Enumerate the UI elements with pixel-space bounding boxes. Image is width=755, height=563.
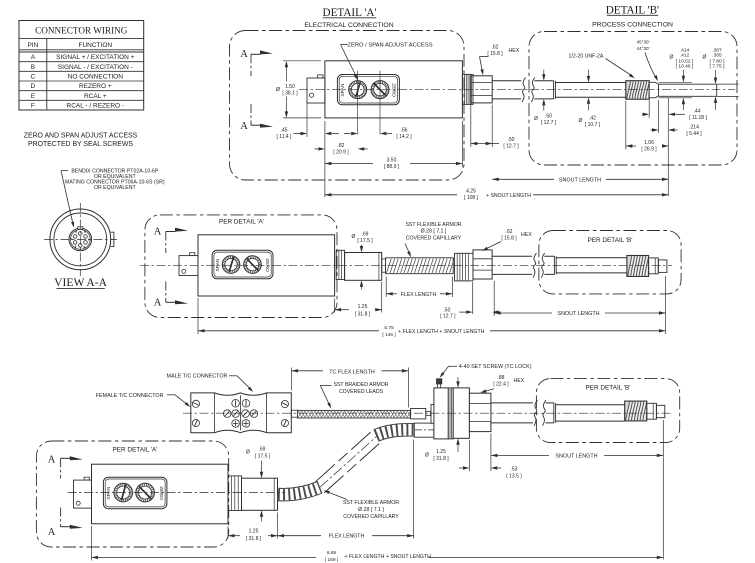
svg-text:5.75: 5.75 <box>384 325 394 331</box>
svg-text:A: A <box>31 54 36 61</box>
svg-text:A: A <box>240 49 248 60</box>
rings at body exit (middle row) <box>336 250 344 279</box>
dimension dia .69 (bottom row) <box>246 446 271 521</box>
svg-text:.88: .88 <box>498 375 505 381</box>
svg-text:Ø: Ø <box>670 55 674 61</box>
per detail B label (bottom row) <box>585 384 630 391</box>
svg-text:.82: .82 <box>338 143 345 149</box>
4-40 set screw <box>437 379 442 388</box>
set screw assembly: main cylinder <box>434 388 448 439</box>
per detail A box (middle row) <box>145 215 337 318</box>
connector stub (middle row) <box>179 253 198 276</box>
detail B title <box>606 4 659 16</box>
view A-A label <box>54 276 108 289</box>
detail A title <box>323 7 377 19</box>
svg-text:A: A <box>154 298 162 309</box>
dimension snout length (bottom row) <box>491 420 663 560</box>
dimension .50 (middle row) <box>440 282 498 320</box>
capillary coupling cylinder (middle row) <box>345 253 382 281</box>
leader from bendix note to connector pins <box>61 171 74 228</box>
svg-text:[ 88.9 ]: [ 88.9 ] <box>384 164 400 170</box>
dimension 45-30 / 44-30 angle (detail B) <box>637 40 658 82</box>
svg-text:ZERO AND SPAN ADJUST ACCESS: ZERO AND SPAN ADJUST ACCESS <box>24 133 138 140</box>
svg-text:[ 38.1 ]: [ 38.1 ] <box>282 90 298 96</box>
svg-text:.44: .44 <box>694 108 701 114</box>
extension line body-right (detail A) <box>461 121 463 167</box>
svg-text:.56: .56 <box>401 128 408 134</box>
svg-text:[ 31.8 ]: [ 31.8 ] <box>355 312 371 318</box>
svg-text:SPAN: SPAN <box>215 258 221 271</box>
svg-text:[ 31.8 ]: [ 31.8 ] <box>246 536 262 542</box>
svg-text:ZERO: ZERO <box>158 486 164 500</box>
svg-text:SIGNAL + / EXCITATION +: SIGNAL + / EXCITATION + <box>56 54 134 61</box>
svg-text:[ 169 ]: [ 169 ] <box>325 557 338 563</box>
transducer body (detail A) <box>325 61 463 118</box>
dimension ext lines .414/.307 (detail B) <box>659 82 739 98</box>
svg-text:Ø: Ø <box>579 118 583 124</box>
detail B subtitle <box>592 22 673 29</box>
svg-text:D: D <box>31 83 36 90</box>
svg-text:.50: .50 <box>508 137 515 143</box>
svg-text:4-40 SET SCREW (TC LOCK): 4-40 SET SCREW (TC LOCK) <box>459 364 532 370</box>
per detail B box (bottom row) <box>536 379 679 443</box>
svg-text:E: E <box>31 93 36 100</box>
centerline (bottom row shaft) <box>183 412 672 414</box>
svg-text:[ 108 ]: [ 108 ] <box>464 195 479 201</box>
section mark A-A top (detail A) <box>240 49 273 76</box>
leader: female t/c connector <box>96 393 191 407</box>
svg-text:4.25: 4.25 <box>466 189 476 195</box>
svg-text:[ 10.46 ]: [ 10.46 ] <box>676 64 694 70</box>
svg-text:SST FLEXIBLE ARMOR: SST FLEXIBLE ARMOR <box>405 222 461 228</box>
tip (middle row) <box>658 260 667 273</box>
coupling rings (middle row) <box>455 253 474 281</box>
per detail A label (bottom row) <box>112 447 157 454</box>
dimension 4.25 + snout length <box>325 189 669 202</box>
svg-text:+ FLEX LENGTH + SNOUT LENGTH: + FLEX LENGTH + SNOUT LENGTH <box>398 329 485 335</box>
sst braided armor tube <box>298 410 411 418</box>
threaded snout (detail B) <box>626 81 651 100</box>
set screw assembly: hex <box>469 393 491 431</box>
span/zero adjust plate (detail A) <box>337 75 399 105</box>
svg-text:.414: .414 <box>680 47 690 53</box>
dimension snout length (middle row) <box>494 276 665 334</box>
svg-text:MALE T/C CONNECTOR: MALE T/C CONNECTOR <box>167 374 228 380</box>
collar (middle row) <box>649 258 659 274</box>
svg-text:VIEW A-A: VIEW A-A <box>54 276 108 289</box>
dimension dia .69 (middle row) <box>352 232 374 290</box>
svg-text:[ 26.9 ]: [ 26.9 ] <box>641 147 657 153</box>
svg-text:ZERO / SPAN ADJUST ACCESS: ZERO / SPAN ADJUST ACCESS <box>347 42 432 48</box>
svg-text:+ FLEX LENGTH + SNOUT LENGTH: + FLEX LENGTH + SNOUT LENGTH <box>345 554 432 560</box>
svg-text:SST FLEXIBLE ARMOR: SST FLEXIBLE ARMOR <box>343 500 399 506</box>
svg-text:1.25: 1.25 <box>358 304 368 310</box>
braided armor fitting at block <box>291 410 297 417</box>
section mark A top (middle row) <box>154 226 188 253</box>
svg-text:F: F <box>31 103 35 110</box>
svg-text:1.06: 1.06 <box>644 140 654 146</box>
set screw assembly: second cylinder <box>453 388 469 438</box>
dimension .45 (detail A) <box>277 103 339 140</box>
threaded snout (middle row) <box>627 256 650 277</box>
section mark A-A bottom (detail A) <box>240 104 273 132</box>
svg-text:[ 17.5 ]: [ 17.5 ] <box>357 238 373 244</box>
dimension .62 hex (top row) <box>480 45 520 76</box>
svg-text:PROTECTED BY SEAL SCREWS: PROTECTED BY SEAL SCREWS <box>28 141 133 148</box>
collar (bottom row) <box>647 403 657 419</box>
section mark A bottom (bottom row) <box>48 508 83 538</box>
braid ferrule <box>411 409 431 419</box>
collar .414 section (detail B) <box>649 82 658 98</box>
svg-text:FLEX LENGTH: FLEX LENGTH <box>401 292 437 298</box>
dimension 3.50 (detail A) <box>325 158 463 171</box>
svg-text:HEX: HEX <box>514 378 525 384</box>
svg-text:SNOUT LENGTH: SNOUT LENGTH <box>557 311 599 317</box>
dimension 1.06 (detail B) <box>626 101 669 153</box>
hex nut (middle row) <box>473 250 492 279</box>
svg-text:PER DETAIL 'A': PER DETAIL 'A' <box>112 447 157 454</box>
section mark A top (bottom row) <box>48 455 83 479</box>
svg-text:Ø.28 [ 7.1 ]: Ø.28 [ 7.1 ] <box>358 507 384 513</box>
svg-text:.69: .69 <box>362 232 369 238</box>
svg-text:[ 12.7 ]: [ 12.7 ] <box>541 120 557 126</box>
svg-text:[ 12.7 ]: [ 12.7 ] <box>440 314 456 320</box>
pipe break (top row) <box>521 77 535 104</box>
pipe break (bottom row) <box>533 399 546 427</box>
svg-text:SST BRAIDED ARMOR: SST BRAIDED ARMOR <box>334 382 389 388</box>
tip (bottom row) <box>656 405 664 417</box>
svg-text:SIGNAL - / EXCITATION -: SIGNAL - / EXCITATION - <box>58 64 133 71</box>
svg-text:FLEX LENGTH: FLEX LENGTH <box>329 534 365 540</box>
svg-text:COVERED LEADS: COVERED LEADS <box>339 389 384 395</box>
svg-text:RCAL +: RCAL + <box>84 93 107 100</box>
centerline (middle row) <box>140 264 672 266</box>
capillary coupling cylinder (bottom row) <box>242 478 278 510</box>
snout shaft .50 section (middle row) <box>492 256 554 274</box>
dimension .56 (detail A) <box>344 128 412 141</box>
svg-text:DETAIL 'A': DETAIL 'A' <box>323 7 377 19</box>
svg-text:[ 10.52 ]: [ 10.52 ] <box>676 59 694 65</box>
svg-text:PER DETAIL 'B': PER DETAIL 'B' <box>587 237 632 244</box>
svg-text:.69: .69 <box>259 446 266 452</box>
svg-text:.62: .62 <box>506 229 513 235</box>
svg-text:A: A <box>240 121 248 132</box>
svg-text:DETAIL 'B': DETAIL 'B' <box>606 4 659 16</box>
span/zero plate (middle row) <box>212 250 273 278</box>
dimension .88 hex <box>480 375 524 393</box>
section mark A bottom (middle row) <box>154 282 188 309</box>
dimension flex length (middle row) <box>386 277 452 299</box>
dimension 1.25 (bottom row) <box>228 513 278 542</box>
note: zero and span adjust access <box>24 133 138 149</box>
svg-text:( 13.5 ): ( 13.5 ) <box>506 474 522 480</box>
svg-text:1.25: 1.25 <box>249 529 259 535</box>
svg-text:Ø: Ø <box>246 450 250 456</box>
note: sst flexible armor (bottom row) <box>324 490 400 520</box>
svg-text:.53: .53 <box>511 467 518 473</box>
transducer body (bottom row) <box>92 464 229 524</box>
svg-text:[ 11.18 ]: [ 11.18 ] <box>689 115 707 121</box>
dimension dia 1.25 (assembly) <box>425 377 460 462</box>
flexible armor (middle row) <box>386 258 455 274</box>
svg-text:3.50: 3.50 <box>387 158 397 164</box>
dimension dia .42 (detail B) <box>579 70 601 128</box>
svg-text:1/2-20 UNF-2A: 1/2-20 UNF-2A <box>569 53 604 59</box>
svg-text:1.50: 1.50 <box>285 84 295 90</box>
centerline (bottom row body) <box>68 492 286 494</box>
svg-text:44°30': 44°30' <box>637 46 650 51</box>
armor end fitting (middle row) <box>382 259 386 272</box>
note: sst flexible armor (middle row) <box>405 222 462 257</box>
svg-text:[ 12.7 ]: [ 12.7 ] <box>503 144 519 150</box>
note: bendix connector <box>65 168 165 190</box>
dimension 1.25 (middle row) <box>335 282 382 318</box>
svg-text:CONNECTOR WIRING: CONNECTOR WIRING <box>35 26 128 36</box>
svg-text:.62: .62 <box>492 45 499 51</box>
svg-text:PIN: PIN <box>27 42 38 49</box>
svg-text:REZERO +: REZERO + <box>79 83 112 90</box>
dimension 1.50 dia (detail A) <box>276 61 321 118</box>
svg-text:[ 22.4 ]: [ 22.4 ] <box>493 381 509 387</box>
svg-text:+ SNOUT LENGTH: + SNOUT LENGTH <box>486 193 531 199</box>
leader: 4-40 set screw (tc lock) <box>440 364 532 378</box>
svg-text:A: A <box>154 226 162 237</box>
svg-text:B: B <box>31 64 35 71</box>
svg-text:OR EQUIVALENT: OR EQUIVALENT <box>94 185 137 191</box>
svg-text:PROCESS CONNECTION: PROCESS CONNECTION <box>592 22 673 29</box>
svg-text:RCAL - / REZERO -: RCAL - / REZERO - <box>67 103 125 110</box>
view A-A centerlines <box>44 203 117 276</box>
svg-text:[ 15.8 ]: [ 15.8 ] <box>487 51 503 57</box>
armor straight diagonal tube (bottom row) <box>316 429 383 493</box>
snout shaft .50 section (bottom row) <box>491 403 554 423</box>
dimension tc flex length <box>292 368 409 408</box>
svg-text:[ 17.5 ]: [ 17.5 ] <box>255 453 271 459</box>
dimension .414/.412 (detail B) <box>670 47 694 110</box>
dimension 5.75 + flex + snout (middle row) <box>198 298 666 338</box>
detail A subtitle <box>304 22 393 29</box>
svg-text:1.25: 1.25 <box>436 449 446 455</box>
svg-text:FEMALE T/C CONNECTOR: FEMALE T/C CONNECTOR <box>96 393 164 399</box>
set screw assembly: rings <box>448 388 453 439</box>
svg-text:.45: .45 <box>281 128 288 134</box>
svg-text:C: C <box>31 74 36 81</box>
svg-text:6.65: 6.65 <box>327 550 337 556</box>
connector stub (bottom row) <box>74 477 92 508</box>
dimension .53 <box>459 434 522 480</box>
shaft step (middle row) <box>554 256 556 274</box>
flexible armor spiral section 1 (bottom row) <box>278 487 320 494</box>
svg-text:B: B <box>75 230 77 234</box>
svg-text:PER DETAIL 'A': PER DETAIL 'A' <box>219 219 264 226</box>
svg-text:[ 5.44 ]: [ 5.44 ] <box>686 131 702 137</box>
svg-text:PER DETAIL 'B': PER DETAIL 'B' <box>585 384 630 391</box>
dimension .44 (detail B) <box>642 98 707 196</box>
svg-text:ELECTRICAL CONNECTION: ELECTRICAL CONNECTION <box>304 22 393 29</box>
svg-text:TC FLEX LENGTH: TC FLEX LENGTH <box>329 369 375 375</box>
note: sst braided armor covered leads <box>320 382 388 409</box>
shaft step (bottom row) <box>554 403 556 423</box>
svg-text:.412: .412 <box>680 53 690 59</box>
per detail B label (middle row) <box>587 237 632 244</box>
svg-text:HEX: HEX <box>521 232 532 238</box>
snout shaft .42 section (middle row) <box>556 258 627 273</box>
dimension .50 hex width (top row) <box>471 105 519 150</box>
snout shaft .50 section (top row) <box>492 81 553 99</box>
hex nut (detail A right) <box>471 76 492 103</box>
centerline (top row) <box>299 89 735 91</box>
svg-text:SNOUT LENGTH: SNOUT LENGTH <box>555 454 597 460</box>
svg-text:.42: .42 <box>589 115 596 121</box>
flange rings (detail A right) <box>462 74 473 104</box>
svg-text:[ 7.75 ]: [ 7.75 ] <box>710 64 726 70</box>
svg-text:.50: .50 <box>443 307 450 313</box>
svg-text:Ø: Ø <box>534 116 538 122</box>
shaft step (top row) <box>554 81 556 99</box>
dimension flex length (bottom row) <box>278 440 414 540</box>
threaded snout (bottom row) <box>625 401 648 421</box>
snout shaft .42 section (top row) <box>555 83 625 98</box>
svg-text:Ø.28 [ 7.1 ]: Ø.28 [ 7.1 ] <box>421 229 447 235</box>
svg-text:COVERED CAPILLARY: COVERED CAPILLARY <box>343 514 399 520</box>
per detail B box (middle row) <box>539 231 681 294</box>
svg-text:[ 14.2 ]: [ 14.2 ] <box>396 134 412 140</box>
svg-text:Ø: Ø <box>352 234 356 240</box>
dimension 6.65 + flex + snout <box>92 526 664 563</box>
svg-text:Ø: Ø <box>425 453 429 459</box>
svg-text:45°30': 45°30' <box>637 40 650 45</box>
span/zero plate (bottom row) <box>103 477 166 509</box>
snout shaft thin section (bottom row) <box>556 405 625 421</box>
per detail A label (middle row) <box>219 219 264 226</box>
svg-text:COVERED CAPILLARY: COVERED CAPILLARY <box>406 236 462 242</box>
thread callout 1/2-20 UNF-2A <box>569 53 635 78</box>
detail B boundary box <box>529 32 737 166</box>
view A-A connector face <box>50 209 114 270</box>
set screw assembly: left plate <box>431 405 434 424</box>
svg-text:[ 7.80 ]: [ 7.80 ] <box>710 59 726 65</box>
svg-text:A: A <box>48 527 56 538</box>
dimension snout length (top row) <box>492 178 668 184</box>
svg-text:.50: .50 <box>545 113 552 119</box>
tc connector block <box>191 393 291 433</box>
svg-text:FUNCTION: FUNCTION <box>79 42 113 49</box>
screw center extension lines (detail A) <box>358 71 380 135</box>
svg-text:[ 20.9 ]: [ 20.9 ] <box>333 149 349 155</box>
svg-text:NO CONNECTION: NO CONNECTION <box>68 74 124 81</box>
svg-text:[ 10.7 ]: [ 10.7 ] <box>585 122 601 128</box>
leader: zero/span adjust access <box>341 42 433 80</box>
svg-text:A: A <box>48 455 56 466</box>
svg-text:HEX: HEX <box>509 48 520 54</box>
svg-text:ZERO: ZERO <box>391 83 397 97</box>
dimension .307/.305 (detail B) <box>703 47 726 110</box>
transducer body (middle row) <box>198 235 335 296</box>
detail A boundary box <box>230 31 465 181</box>
electrical connector stub (detail A) <box>307 75 325 103</box>
svg-text:E: E <box>84 245 86 249</box>
per detail A box (bottom row) <box>36 441 228 547</box>
svg-text:C: C <box>84 230 86 234</box>
leader: male t/c connector <box>167 374 254 392</box>
dimension .214 (detail B) <box>651 100 703 137</box>
svg-text:SNOUT LENGTH: SNOUT LENGTH <box>559 178 601 184</box>
dimension .62 hex (middle row) <box>482 229 532 251</box>
svg-text:[ 146 ]: [ 146 ] <box>382 332 395 338</box>
dimension dia .50 (detail B) <box>534 70 557 126</box>
tip rod .307 (detail B) <box>659 84 717 96</box>
connector wiring table <box>19 21 144 111</box>
dimension .82 (detail A) <box>315 143 368 156</box>
rings at body exit (bottom row) <box>228 476 242 511</box>
svg-text:[ 31.8 ]: [ 31.8 ] <box>433 456 449 462</box>
svg-text:[ 15.8 ]: [ 15.8 ] <box>501 235 517 241</box>
svg-text:.307: .307 <box>712 47 722 53</box>
set screw assembly: entry port <box>414 423 434 437</box>
pipe break (middle row) <box>532 252 545 279</box>
svg-text:[ 11.4 ]: [ 11.4 ] <box>277 134 293 140</box>
extension line body-left (detail A) <box>324 121 326 197</box>
flexible armor spiral section 2 (bottom row) <box>376 430 415 436</box>
svg-text:Ø: Ø <box>703 55 707 61</box>
svg-text:.305: .305 <box>712 53 722 59</box>
svg-text:.214: .214 <box>689 124 699 130</box>
